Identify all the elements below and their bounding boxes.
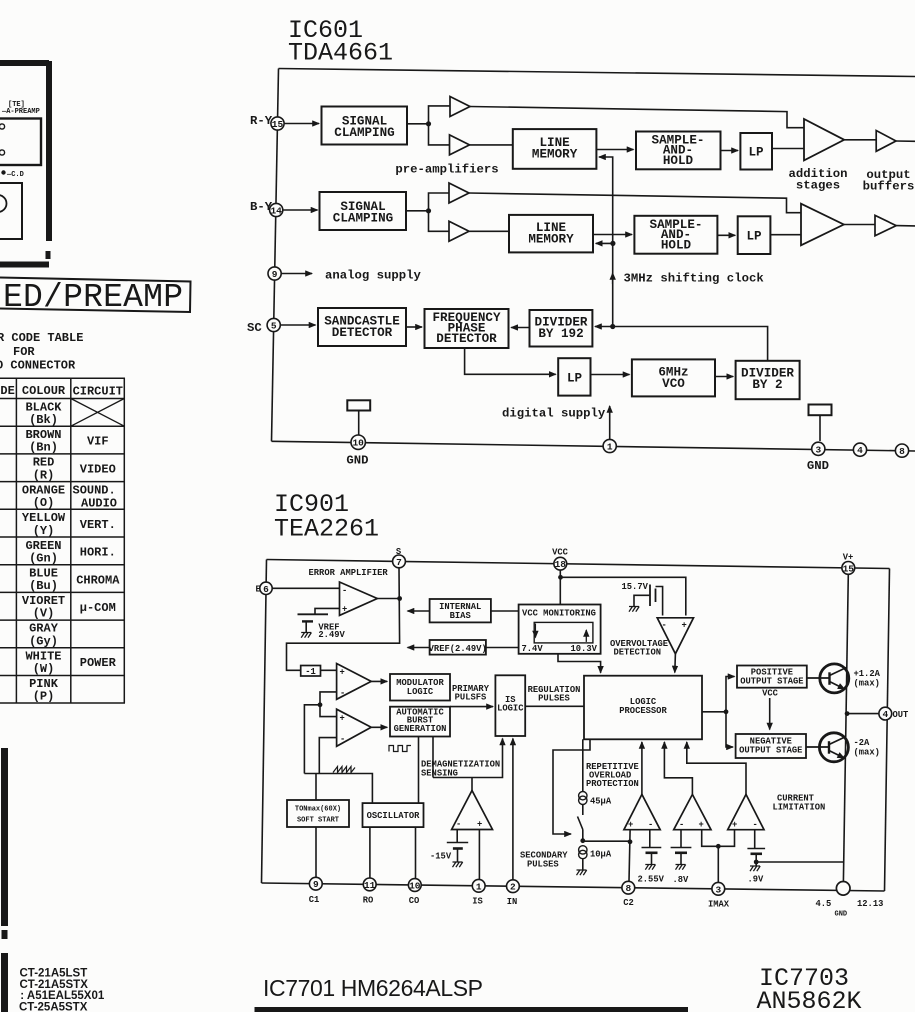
vcc monitoring inner window bbox=[534, 622, 593, 643]
svg-text:(Gn): (Gn) bbox=[29, 552, 58, 566]
svg-text:ED/PREAMP: ED/PREAMP bbox=[3, 279, 183, 316]
wire overvoltage to logic processor bbox=[674, 654, 677, 673]
wire error amp output to pin7 line bbox=[377, 598, 399, 600]
wire op-amp1 to modulator logic bbox=[371, 680, 387, 682]
wire buffer2 output bbox=[896, 225, 915, 227]
svg-text:GRAY: GRAY bbox=[29, 622, 59, 636]
svg-text:4: 4 bbox=[857, 445, 863, 456]
pin 4 (OUT) bbox=[879, 707, 892, 720]
label OUT bbox=[893, 710, 910, 720]
arrowhead on clock line bbox=[612, 273, 614, 284]
svg-text:+: + bbox=[628, 820, 633, 830]
wire comp3 output to logic processor bbox=[687, 742, 746, 794]
svg-text:IMAX: IMAX bbox=[708, 900, 730, 910]
label E bbox=[256, 585, 261, 595]
wire to pre-amp 3 bbox=[429, 193, 450, 211]
wire addition1 to buffer1 bbox=[844, 139, 876, 141]
wire comparator apex up bbox=[471, 778, 473, 791]
svg-text:12.13: 12.13 bbox=[857, 899, 883, 909]
pin 8 bbox=[895, 444, 908, 457]
svg-text:DETECTION: DETECTION bbox=[614, 648, 662, 658]
svg-text:AUDIO: AUDIO bbox=[81, 497, 117, 511]
op-amp error amplifier bbox=[340, 582, 378, 615]
svg-text:18: 18 bbox=[555, 559, 567, 570]
svg-text:3: 3 bbox=[715, 884, 721, 895]
svg-text:—A-PREAMP: —A-PREAMP bbox=[1, 108, 40, 116]
crossed-out cell bbox=[71, 399, 125, 427]
svg-text:+: + bbox=[340, 714, 345, 724]
IC601 bottom supply rail bbox=[272, 441, 915, 451]
svg-text:-: - bbox=[456, 820, 461, 830]
label 15.7V bbox=[622, 582, 649, 592]
wire to pre-amp 1 bbox=[429, 106, 451, 124]
svg-text:buffers: buffers bbox=[863, 180, 915, 194]
svg-text:+: + bbox=[340, 668, 345, 678]
svg-text:PROTECTION: PROTECTION bbox=[586, 779, 639, 789]
svg-text:(V): (V) bbox=[33, 607, 55, 621]
pin 3 bbox=[812, 442, 825, 455]
op-amp burst input bbox=[337, 709, 372, 746]
switch wire bbox=[578, 805, 583, 841]
wire TONmax to sawtooth line bbox=[315, 774, 317, 801]
wire op-amp1 minus bbox=[320, 692, 337, 705]
addition stage triangle 1 bbox=[804, 119, 844, 160]
svg-text:10: 10 bbox=[352, 438, 364, 449]
wire direct path 1 to addition stage bbox=[470, 107, 804, 128]
svg-text:SOFT START: SOFT START bbox=[297, 817, 339, 825]
wire pin18 down and across to overvoltage bbox=[560, 570, 686, 615]
node feedback junction bbox=[397, 596, 402, 601]
bottom memory block top edge (cut) bbox=[255, 1007, 689, 1012]
svg-text:8: 8 bbox=[625, 883, 631, 894]
svg-text:CT-21A5STX: CT-21A5STX bbox=[20, 979, 89, 991]
current source 45uA bbox=[579, 792, 587, 800]
svg-text:TEA2261: TEA2261 bbox=[274, 515, 379, 544]
svg-text:9: 9 bbox=[313, 879, 319, 890]
svg-text:BIAS: BIAS bbox=[450, 611, 471, 621]
IC601 outer box top edge bbox=[279, 69, 915, 77]
svg-text:8: 8 bbox=[899, 446, 905, 457]
IC901 outer box right edge bbox=[885, 569, 890, 892]
svg-text:digital supply: digital supply bbox=[502, 407, 606, 421]
wire pre-amp4 to line memory 2 bbox=[469, 230, 509, 232]
label GND pin10 bbox=[346, 454, 368, 468]
pin 3 (IMAX) bbox=[712, 882, 725, 895]
wire line memory to sample-and-hold 1 bbox=[596, 149, 633, 151]
wire vcc down to negative stage bbox=[769, 698, 771, 730]
line memory block 2 bbox=[509, 215, 593, 253]
label C.D bbox=[1, 170, 24, 179]
svg-text:-: - bbox=[340, 735, 345, 745]
label 12.13 bbox=[857, 899, 883, 909]
transistor Q2 (-2A) bbox=[806, 733, 848, 762]
label DEMAGNETIZATION SENSING bbox=[421, 760, 500, 779]
svg-text:15: 15 bbox=[843, 563, 855, 574]
pin circle bbox=[0, 124, 5, 129]
automatic burst generation block bbox=[390, 707, 450, 737]
label GND pin3 bbox=[807, 459, 829, 473]
wire .9V junction to V+ ground line bbox=[756, 861, 843, 863]
top-left preamp panel outer box (cut off at page edge) bbox=[0, 61, 49, 265]
svg-text:LOGIC: LOGIC bbox=[497, 704, 524, 714]
pin circle bbox=[0, 150, 5, 155]
svg-text:14: 14 bbox=[270, 206, 282, 217]
wire op-amp2 minus to sawtooth line bbox=[319, 738, 336, 774]
svg-text:VCO: VCO bbox=[662, 377, 685, 391]
svg-text:(W): (W) bbox=[33, 662, 55, 676]
IC601 outer box left edge bbox=[272, 69, 279, 442]
wire sawtooth horizontal to oscillator bbox=[304, 774, 372, 804]
pin 1 (IS) bbox=[472, 879, 485, 892]
svg-text:: A51EAL55X01: : A51EAL55X01 bbox=[20, 990, 105, 1002]
svg-text:VIDEO: VIDEO bbox=[80, 463, 116, 477]
IC901 outer box left edge bbox=[262, 560, 267, 884]
pre-amp triangle 3 bbox=[449, 183, 469, 203]
wire comparator minus to battery bbox=[456, 830, 458, 843]
svg-text:HOLD: HOLD bbox=[661, 239, 692, 253]
wire pin14 to signal clamping 2 bbox=[283, 209, 318, 211]
svg-text:PULSES: PULSES bbox=[527, 860, 559, 870]
capacitor .8V bbox=[671, 847, 692, 849]
svg-text:HOLD: HOLD bbox=[663, 154, 694, 168]
wire split to positive stage bbox=[726, 677, 735, 712]
wire S+H2 to LP2 bbox=[717, 234, 735, 236]
negative output stage block bbox=[736, 734, 806, 758]
svg-text:AN5862K: AN5862K bbox=[757, 987, 862, 1012]
label SECONDARY PULSES bbox=[520, 851, 568, 870]
label 7.4V bbox=[522, 644, 544, 654]
svg-text:BY 192: BY 192 bbox=[538, 327, 583, 341]
svg-text:RED: RED bbox=[33, 456, 55, 470]
wire vref box to vcc monitoring bbox=[486, 647, 519, 649]
svg-text:MEMORY: MEMORY bbox=[532, 148, 578, 162]
svg-text:VERT.: VERT. bbox=[80, 518, 116, 532]
wire LP3 to VCO bbox=[591, 374, 630, 376]
wire demag sensing to burst gen bbox=[432, 737, 434, 778]
label pre-amplifiers bbox=[395, 163, 498, 177]
wire to pre-amp 4 bbox=[429, 211, 450, 232]
svg-text:HORI.: HORI. bbox=[80, 546, 116, 560]
label .8V bbox=[673, 875, 690, 885]
signal clamping block 1 bbox=[322, 107, 408, 145]
block box (cut at edge) bbox=[0, 183, 22, 239]
svg-text:-15V: -15V bbox=[430, 852, 452, 862]
svg-text:SOUND.: SOUND. bbox=[73, 484, 116, 498]
logic processor block bbox=[584, 676, 702, 740]
label analog supply bbox=[325, 269, 422, 283]
node op-amp feedback junction bbox=[318, 702, 323, 707]
wire junction to C2 line bbox=[583, 840, 630, 842]
label V+ bbox=[843, 553, 854, 563]
wire pin2 to IS logic bbox=[512, 739, 514, 880]
wire pin5 to sandcastle detector bbox=[280, 324, 315, 326]
svg-text:COLOUR: COLOUR bbox=[22, 384, 66, 398]
wire to pre-amp 2 bbox=[429, 124, 450, 145]
node switch junction bbox=[580, 838, 585, 843]
svg-text:2: 2 bbox=[510, 882, 516, 893]
label IMAX bbox=[708, 900, 730, 910]
svg-text:PULSES: PULSES bbox=[538, 694, 570, 704]
svg-text:(max): (max) bbox=[854, 679, 880, 689]
vcc monitoring block bbox=[519, 605, 601, 654]
ED/PREAMP title box bbox=[0, 278, 191, 313]
overvoltage comparator (points down) bbox=[657, 618, 693, 654]
square wave symbol bbox=[389, 746, 411, 752]
svg-text:(O): (O) bbox=[33, 496, 55, 510]
arrow down inside monitor bbox=[534, 624, 536, 638]
pin 2 (IN) bbox=[507, 880, 520, 893]
wire comp1 minus to capacitor bbox=[649, 830, 651, 848]
wire freq phase det to LP3 bbox=[465, 348, 556, 374]
svg-text:YELLOW: YELLOW bbox=[22, 511, 66, 525]
capacitor .9V bbox=[747, 848, 765, 850]
label 10uA bbox=[590, 850, 612, 860]
node output split bbox=[724, 709, 729, 714]
chassis list text bbox=[19, 968, 105, 1012]
line memory block 1 bbox=[513, 129, 597, 169]
svg-text:15.7V: 15.7V bbox=[622, 582, 649, 592]
label REPETITIVE OVERLOAD PROTECTION bbox=[586, 762, 639, 789]
ground .9V bbox=[750, 866, 760, 871]
wire comp1 plus to pin8 bbox=[629, 830, 630, 881]
svg-text:C1: C1 bbox=[309, 895, 320, 905]
ground battery bbox=[453, 862, 463, 867]
battery -15V bbox=[447, 842, 468, 844]
pin 14 bbox=[270, 203, 283, 216]
ground .8V bbox=[676, 865, 686, 870]
ground 15.7V cap bbox=[629, 607, 639, 612]
IS logic block bbox=[495, 675, 525, 736]
svg-text:OSCILLATOR: OSCILLATOR bbox=[367, 811, 421, 821]
ED/PREAMP title text bbox=[3, 279, 183, 316]
oscillator block bbox=[363, 803, 424, 827]
label OVERVOLTAGE DETECTION bbox=[610, 639, 668, 658]
wire internal bias to vcc monitoring bbox=[491, 610, 519, 612]
comparator 1 (C2 protection) bbox=[624, 794, 660, 829]
node clock junction row2 bbox=[610, 241, 615, 246]
svg-text:10.3V: 10.3V bbox=[571, 644, 598, 654]
ground 10uA bbox=[577, 870, 587, 875]
wire vref box arrow bbox=[408, 647, 430, 649]
svg-text:—C.D: —C.D bbox=[6, 171, 24, 179]
svg-text:RO: RO bbox=[363, 896, 374, 906]
svg-text:(P): (P) bbox=[33, 690, 55, 704]
svg-text:CHROMA: CHROMA bbox=[76, 574, 120, 588]
svg-text:VCC MONITORING: VCC MONITORING bbox=[522, 609, 596, 619]
wire .9V junction down bbox=[755, 862, 757, 866]
wire pre-amp2 to line memory bbox=[470, 144, 513, 146]
6MHz VCO block bbox=[632, 359, 715, 396]
svg-text:+: + bbox=[682, 621, 687, 631]
svg-text:5: 5 bbox=[271, 321, 277, 332]
wire tab stem pin3 bbox=[819, 415, 821, 441]
svg-text:LIMITATION: LIMITATION bbox=[773, 803, 826, 813]
svg-text:DETECTOR: DETECTOR bbox=[436, 332, 497, 346]
pin GND (4,5,12,13) open circle bbox=[836, 882, 850, 896]
wire digital supply arrow from pin1 bbox=[609, 406, 611, 444]
node vcc tap bbox=[558, 575, 563, 580]
IC901 bottom rail bbox=[262, 883, 885, 891]
capacitor 2.55V bbox=[642, 847, 662, 849]
wire op-amp2 to burst generation bbox=[371, 726, 387, 728]
heading IC601 / TDA4661 bbox=[288, 16, 393, 68]
comparator 2 bbox=[674, 794, 711, 829]
wire line memory2 to S+H 2 bbox=[593, 234, 632, 236]
svg-text:9: 9 bbox=[272, 269, 278, 280]
svg-text:-: - bbox=[753, 820, 758, 830]
divider by 2 block bbox=[736, 361, 800, 399]
sawtooth symbol bbox=[333, 767, 355, 773]
svg-text:GND: GND bbox=[835, 911, 848, 919]
svg-text:1: 1 bbox=[607, 442, 613, 453]
label VCC bbox=[552, 548, 569, 558]
heading IC901 / TEA2261 bbox=[274, 490, 379, 544]
internal bias block bbox=[430, 599, 491, 622]
bottom-left thick panel edge (cut) bbox=[1, 748, 8, 1012]
wire pin15 to signal clamping bbox=[284, 123, 319, 125]
wire VCO to divider by 2 bbox=[715, 376, 733, 378]
label 45uA bbox=[590, 797, 612, 807]
LP block 1 bbox=[740, 133, 772, 170]
pin 9 bbox=[268, 267, 281, 280]
svg-text:-: - bbox=[662, 621, 667, 631]
pin 6 bbox=[260, 582, 272, 594]
svg-text:DETECTOR: DETECTOR bbox=[332, 326, 393, 340]
pin 11 bbox=[363, 878, 376, 891]
svg-text:-: - bbox=[679, 820, 684, 830]
wire comp2 plus / comp3 plus / IMAX tee bbox=[702, 830, 735, 847]
label +1.2A (max) bbox=[854, 669, 881, 689]
svg-text:GENERATION: GENERATION bbox=[394, 724, 447, 734]
svg-text:FOR: FOR bbox=[13, 345, 35, 359]
IC901 outer box top rail bbox=[267, 560, 890, 569]
wire IS logic to logic processor bbox=[525, 705, 584, 707]
svg-text:PULSFS: PULSFS bbox=[455, 693, 487, 703]
svg-text:analog supply: analog supply bbox=[325, 269, 422, 283]
wire divider2 output to divider192 bbox=[595, 327, 768, 361]
node C2 junction bbox=[628, 839, 633, 844]
label C2 bbox=[623, 898, 634, 908]
wire op-amp2 plus bbox=[320, 705, 337, 717]
svg-text:(Gy): (Gy) bbox=[29, 635, 58, 649]
label 10.3V bbox=[571, 644, 598, 654]
wire comp2 output to logic processor bbox=[664, 742, 692, 794]
connector tab above pin3 bbox=[809, 405, 832, 416]
label C1 bbox=[309, 895, 320, 905]
pre-amp triangle 1 bbox=[450, 97, 470, 117]
svg-text:+: + bbox=[477, 820, 482, 830]
svg-text:CT-21A5LST: CT-21A5LST bbox=[20, 968, 88, 980]
label IN bbox=[507, 897, 518, 907]
wire direct path 2 to addition stage 2 bbox=[469, 193, 801, 213]
pin 1 bbox=[603, 439, 616, 452]
wire sandcastle to freq phase det bbox=[406, 326, 422, 328]
pin 4 bbox=[853, 443, 866, 456]
pin 15 bbox=[842, 562, 855, 575]
svg-text:stages: stages bbox=[796, 179, 840, 193]
svg-text:R-Y: R-Y bbox=[250, 114, 273, 128]
svg-text:(Y): (Y) bbox=[33, 524, 55, 538]
label PRIMARY PULSES bbox=[452, 684, 490, 703]
wire pin7 vertical / feedback loop bbox=[287, 568, 400, 670]
svg-text:OUTPUT STAGE: OUTPUT STAGE bbox=[739, 746, 802, 756]
wire comp1 output to logic processor bbox=[641, 742, 643, 794]
svg-text:LP: LP bbox=[746, 230, 762, 244]
partial circle in block bbox=[0, 195, 7, 212]
wire internal bias arrow bbox=[408, 610, 430, 612]
sample-and-hold block 1 bbox=[636, 132, 721, 170]
svg-text:OUT: OUT bbox=[893, 710, 910, 720]
wire oscillator to pin11 bbox=[369, 827, 371, 878]
LP block 3 bbox=[558, 358, 590, 395]
label .9V bbox=[748, 875, 765, 885]
svg-text:10: 10 bbox=[409, 881, 421, 892]
pin 7 bbox=[393, 555, 406, 568]
divider by 192 block bbox=[530, 310, 593, 347]
capacitor VREF bbox=[298, 613, 329, 615]
wire buffer1 output bbox=[896, 140, 915, 142]
svg-text:CIRCUIT: CIRCUIT bbox=[73, 385, 123, 399]
svg-text:O CONNECTOR: O CONNECTOR bbox=[0, 359, 76, 373]
wire comp3 minus to capacitor bbox=[754, 830, 756, 849]
wire clamping1 output bbox=[407, 123, 429, 125]
label output buffers bbox=[863, 168, 915, 194]
wire analog supply arrow bbox=[281, 273, 312, 275]
wire clamping2 output bbox=[406, 210, 429, 212]
node B-Y label bbox=[250, 200, 273, 214]
sandcastle detector block bbox=[318, 308, 406, 346]
label 4.5 bbox=[816, 899, 832, 909]
svg-text:BY 2: BY 2 bbox=[752, 378, 782, 392]
pin 10 bbox=[351, 435, 365, 449]
node IMAX junction bbox=[716, 844, 721, 849]
wire tab stem pin10 bbox=[358, 411, 360, 436]
svg-text:C2: C2 bbox=[623, 898, 634, 908]
wire 10uA to ground bbox=[582, 859, 584, 870]
pre-amp triangle 4 bbox=[449, 221, 469, 241]
node clock tap junction bbox=[610, 324, 615, 329]
pin 15 bbox=[271, 117, 284, 130]
label IS bbox=[472, 897, 483, 907]
ground vref bbox=[301, 633, 311, 638]
wire pin6 to error amp bbox=[272, 587, 339, 589]
node SC label bbox=[247, 321, 262, 335]
node junction 1 bbox=[426, 121, 431, 126]
svg-text:3: 3 bbox=[815, 444, 821, 455]
svg-text:(Bu): (Bu) bbox=[29, 579, 58, 593]
wire LP2 to addition stage 2 bbox=[770, 234, 801, 236]
svg-text:CODE: CODE bbox=[0, 384, 15, 398]
frequency phase detector block bbox=[425, 309, 509, 348]
output buffer triangle 2 bbox=[875, 215, 896, 235]
svg-text:VIF: VIF bbox=[87, 435, 109, 449]
node .9V junction bbox=[754, 860, 759, 865]
svg-text:(R): (R) bbox=[33, 469, 55, 483]
wire comparator plus to pin1 bbox=[478, 830, 480, 880]
svg-text:TDA4661: TDA4661 bbox=[288, 39, 393, 68]
svg-text:(Bk): (Bk) bbox=[29, 413, 58, 427]
svg-text:.8V: .8V bbox=[673, 875, 690, 885]
wire split to negative stage bbox=[726, 712, 733, 747]
svg-text:11: 11 bbox=[364, 880, 376, 891]
svg-text:10µA: 10µA bbox=[590, 850, 612, 860]
label addition stages bbox=[788, 167, 847, 193]
label GND bbox=[835, 911, 848, 919]
svg-text:LOGIC: LOGIC bbox=[407, 687, 434, 697]
wire S+H to LP 1 bbox=[721, 150, 739, 152]
svg-text:(max): (max) bbox=[854, 748, 880, 758]
pin 5 bbox=[267, 318, 280, 331]
